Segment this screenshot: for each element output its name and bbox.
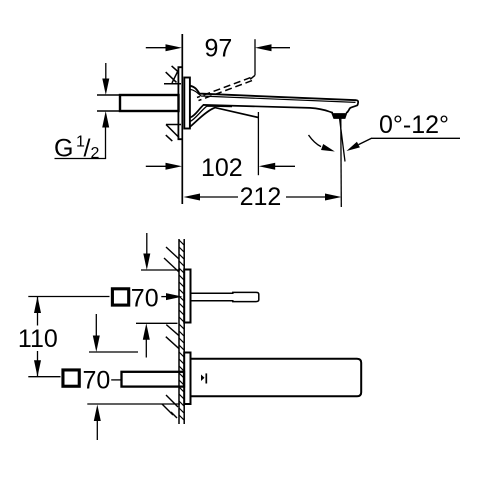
concealed flange behind wall <box>178 67 182 139</box>
mousseur mark <box>201 375 205 382</box>
leader arrowhead <box>347 142 360 151</box>
wall band internal hatch <box>179 240 184 420</box>
wall hatch lower (top view) <box>166 125 181 142</box>
wall line (top view) <box>181 34 183 204</box>
svg-text:70: 70 <box>83 366 111 394</box>
dim 102 right arrow <box>275 165 295 167</box>
label leader to supply bar <box>111 379 121 381</box>
G1/2 underline <box>55 158 107 160</box>
swivel arc arrowhead <box>321 144 335 152</box>
water stream 12 deg line <box>340 118 346 162</box>
concealed supply bar <box>122 372 185 387</box>
label leader 0-12 <box>359 138 372 144</box>
svg-text:/: / <box>84 134 91 162</box>
svg-text:0°-12°: 0°-12° <box>379 111 449 139</box>
svg-text:110: 110 <box>18 325 58 353</box>
dim 97 left arrow <box>146 47 167 49</box>
spout unit centerline <box>28 376 60 378</box>
handle dia dim upper arrow <box>105 63 107 80</box>
square symbol bottom 70 <box>63 370 79 386</box>
dim 70 top lower arrow <box>145 339 147 358</box>
spout top inner line <box>190 89 356 102</box>
svg-text:212: 212 <box>240 183 282 211</box>
concealed mixer body bar <box>120 95 179 111</box>
handle dia dim lower arrow + G1/2 leader <box>105 127 107 159</box>
label underline 0-12 <box>371 137 460 139</box>
spout escutcheon plate (bottom view) <box>184 353 190 405</box>
dim 110 vertical line <box>37 297 39 326</box>
svg-text:102: 102 <box>201 154 243 182</box>
dim 70 bottom lower arrow <box>96 420 98 440</box>
dim 97 extension line <box>254 39 256 75</box>
wall hatch upper (top view) <box>164 66 181 84</box>
spout bottom inner line <box>190 106 232 122</box>
spout body (plan) <box>191 359 362 397</box>
dim 70 bottom: extension lines <box>89 351 138 353</box>
dim 70 bottom upper arrow <box>95 314 97 337</box>
svg-text:2: 2 <box>91 145 100 162</box>
escutcheon plate (top view) <box>184 78 190 129</box>
wall long hatch below spout unit <box>162 395 178 418</box>
raised lever tip cap <box>250 75 255 79</box>
spout tip cap and nose <box>346 100 358 113</box>
square symbol top 70 <box>112 289 128 305</box>
lever handle raised (dashed) upper <box>197 78 251 98</box>
handle unit centerline <box>28 296 109 298</box>
water stream 0 deg line <box>340 118 343 207</box>
svg-text:70: 70 <box>131 284 159 312</box>
lever handle (horizontal position) <box>190 108 258 127</box>
handle escutcheon plate (bottom view) <box>184 270 190 323</box>
wall long hatch between units <box>166 325 179 349</box>
dim 97 right arrow <box>271 47 290 49</box>
aerator <box>332 114 346 118</box>
G1/2 threaded nipple <box>97 94 120 96</box>
dim 212 line left <box>199 196 238 198</box>
spout underside line <box>190 105 333 118</box>
wall band (bottom view) <box>178 239 180 424</box>
dim 212 line right <box>286 196 326 198</box>
dim 102 extension line <box>257 112 259 175</box>
dim 70 top: extension lines <box>141 269 180 271</box>
lever handle raised (dashed) lower <box>199 81 253 101</box>
swivel arc <box>309 135 322 147</box>
wall long hatch above handle unit <box>164 247 179 272</box>
svg-text:G: G <box>54 134 73 162</box>
handle lever rod (plan) <box>191 292 259 301</box>
spout top outer line <box>190 86 357 100</box>
svg-text:97: 97 <box>205 35 233 63</box>
dim 70 top upper arrow <box>146 233 148 255</box>
dim 102 left arrow <box>146 165 167 167</box>
